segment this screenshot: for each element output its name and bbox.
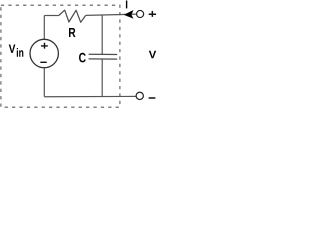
capacitor C plates — [89, 54, 118, 59]
wire: capacitor top junction drop — [101, 15, 103, 54]
label V (output voltage) — [149, 51, 156, 59]
plus sign at top terminal — [149, 11, 156, 17]
label R — [69, 28, 76, 37]
dashed box (black-box boundary) — [1, 5, 120, 107]
wire: source bottom down to bottom rail corner — [43, 68, 45, 97]
voltage source Vin circle — [30, 39, 58, 67]
bottom terminal circle — [136, 92, 143, 99]
label Vin (in subscript) — [17, 48, 24, 57]
plus sign inside source — [41, 43, 48, 49]
label Vin (V) — [9, 45, 16, 53]
minus sign at bottom terminal — [149, 97, 156, 99]
wire: capacitor bottom drop to bottom rail — [101, 59, 103, 97]
wire: bottom rail to terminal — [44, 95, 136, 97]
top terminal circle — [137, 10, 144, 17]
wire: source top up to top rail — [43, 16, 45, 40]
minus sign inside source — [40, 61, 46, 63]
wire: top rail left segment — [44, 15, 59, 17]
wire: top rail right segment to terminal — [86, 14, 137, 15]
label I — [126, 1, 127, 9]
resistor R zigzag — [59, 10, 86, 22]
label C — [79, 53, 86, 63]
current arrow I (pointing left into box) — [124, 10, 133, 18]
